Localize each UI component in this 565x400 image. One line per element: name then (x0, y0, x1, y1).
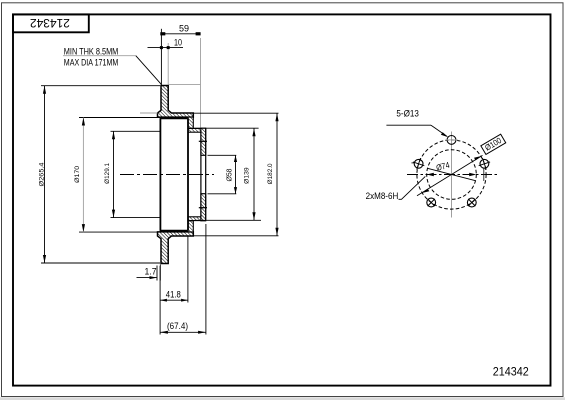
svg-text:MIN THK 8.5MM: MIN THK 8.5MM (64, 46, 119, 56)
hatched section: friction ring + hat top (upper half) (158, 86, 194, 118)
dim Ø58 (208, 155, 237, 194)
bolt hole edge ticks (199, 140, 207, 142)
dim Ø129.1 (111, 131, 161, 217)
dim 10 (148, 47, 184, 49)
dim line Ø100 (steep diagonal) (417, 155, 483, 195)
hatched section: hat end wall (lower) (188, 221, 193, 232)
svg-text:2xM8-6H: 2xM8-6H (366, 191, 399, 201)
svg-text:MAX DIA 171MM: MAX DIA 171MM (64, 57, 119, 67)
dim 59 (161, 29, 200, 85)
dim (67.4) (160, 224, 206, 335)
hat drum rim silhouette left (159, 118, 161, 231)
hatched section: hub plate column (upper) (201, 128, 206, 155)
dim Ø139 (194, 128, 261, 220)
hat inner surface top (160, 117, 188, 119)
bottom page edge strip (0, 397, 565, 400)
hole centre ticks (411, 162, 490, 181)
dim Ø182.0 (194, 113, 279, 236)
bolt hole top (447, 136, 456, 145)
boxed label Ø100 (481, 134, 506, 154)
bolt hole left (162) (413, 158, 424, 169)
dim 1.7 (137, 265, 161, 281)
centerline of section (120, 174, 214, 176)
hat inner surface bottom (160, 230, 188, 232)
horizontal centerline (407, 174, 497, 176)
svg-text:Ø58: Ø58 (227, 168, 234, 181)
svg-text:1.7: 1.7 (145, 267, 157, 277)
svg-text:(67.4): (67.4) (167, 321, 188, 331)
bolt hole lower-right (306) with cross (467, 198, 476, 207)
hatched section: hat end wall (upper) (188, 117, 193, 128)
bolt hole lower-left (234) with cross (427, 198, 436, 207)
hatched section: flange ledge (lower) (188, 217, 201, 221)
screened construction lines (140, 38, 201, 128)
hatched section: hub plate column (lower) (201, 194, 206, 221)
svg-text:10: 10 (174, 37, 182, 47)
svg-text:5-Ø13: 5-Ø13 (396, 108, 419, 118)
svg-text:Ø139: Ø139 (243, 167, 250, 184)
wall inner face silhouette (187, 118, 189, 230)
visible interior silhouette lines (160, 118, 188, 231)
bolt circle Ø100 (417, 140, 486, 209)
svg-text:Ø170: Ø170 (74, 166, 81, 183)
dim Ø265.4 (41, 86, 160, 263)
svg-text:41.8: 41.8 (166, 289, 181, 299)
title box top-left (13, 14, 89, 32)
dim line Ø74 (shallow diagonal) (428, 168, 476, 180)
svg-text:214342: 214342 (493, 365, 529, 379)
svg-text:Ø129.1: Ø129.1 (104, 163, 111, 184)
svg-text:59: 59 (179, 24, 189, 34)
bore silhouette lines (200, 132, 202, 218)
svg-text:Ø265.4: Ø265.4 (38, 162, 45, 186)
dim Ø170 (79, 118, 160, 233)
dim 41.8 (160, 237, 188, 335)
vertical centerline (451, 132, 453, 218)
bolt hole right (18) (479, 158, 490, 169)
hatched section: friction ring + hat top (lower half) (158, 232, 194, 264)
svg-text:Ø182.0: Ø182.0 (267, 163, 274, 184)
svg-text:214342: 214342 (30, 16, 70, 30)
hatched section: flange ledge (upper) (188, 128, 201, 132)
hub circle Ø74 (427, 150, 477, 200)
